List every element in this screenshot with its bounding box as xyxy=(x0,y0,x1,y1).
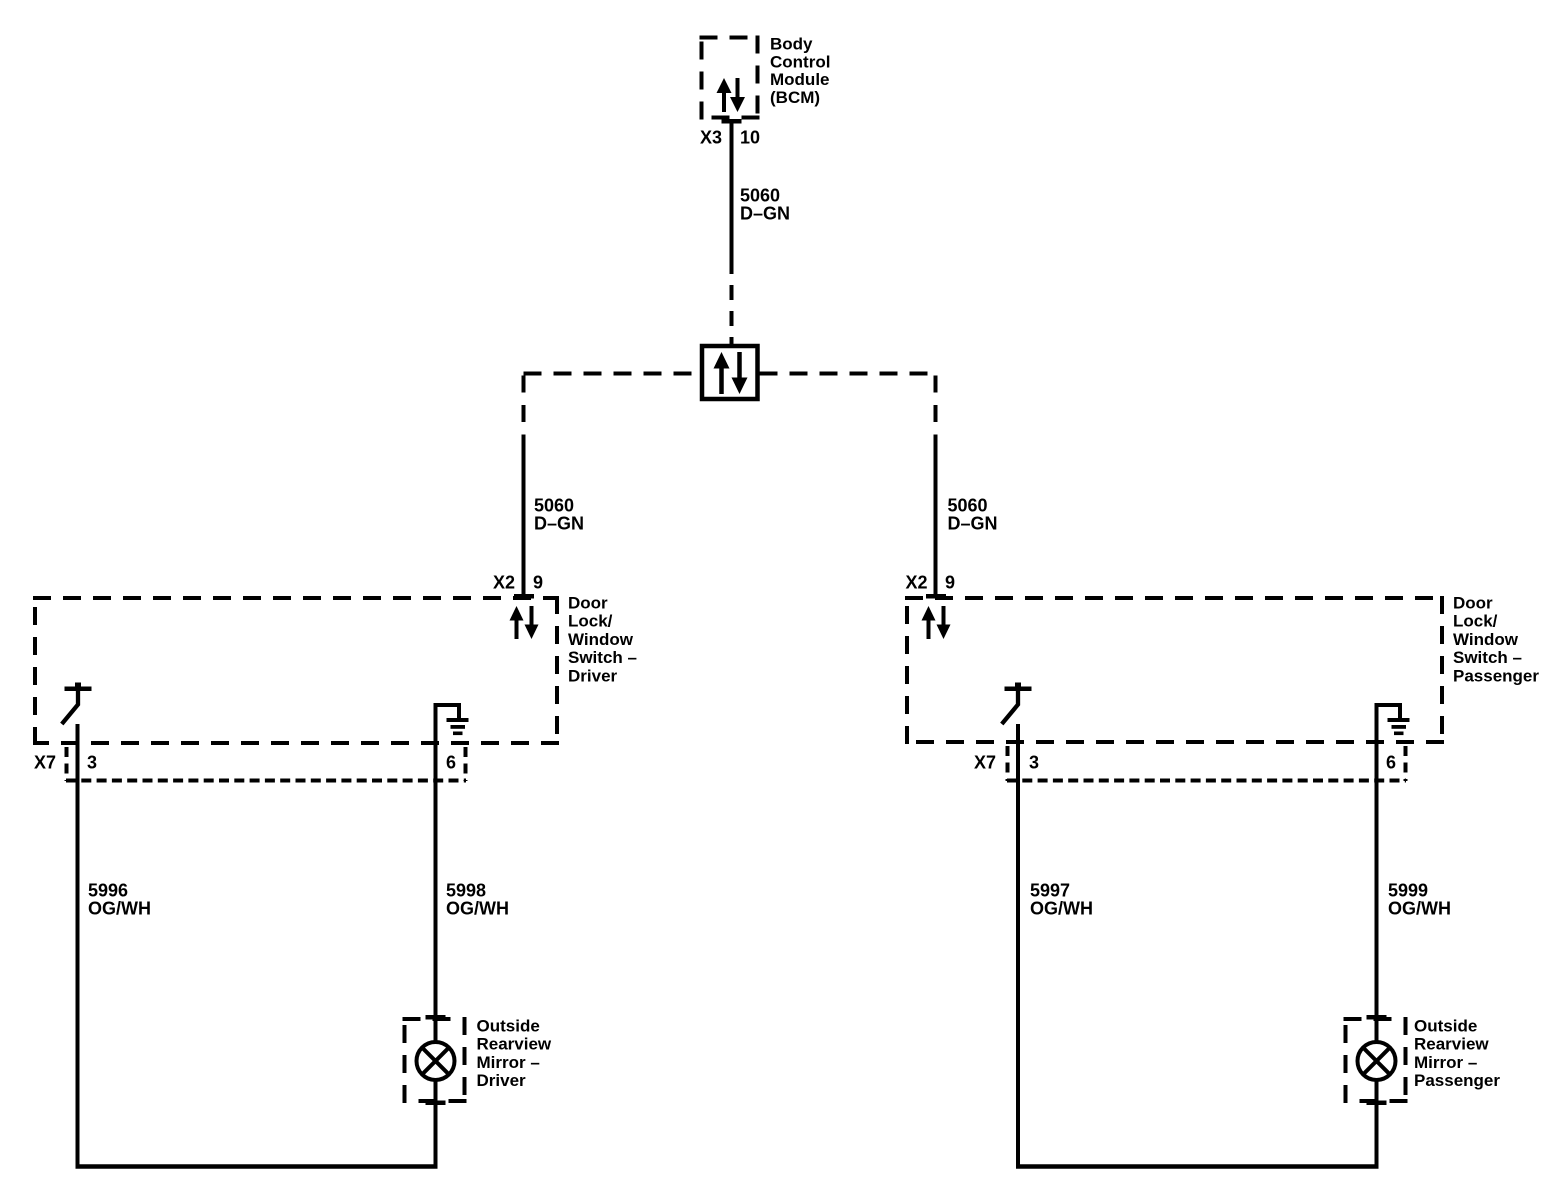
bottom rail wire (driver circuit) xyxy=(76,1164,438,1169)
driver switch label text xyxy=(568,594,637,686)
driver switch internal up/down arrows xyxy=(510,606,539,639)
svg-text:X2: X2 xyxy=(905,573,927,593)
svg-text:X7: X7 xyxy=(34,753,56,773)
passenger switch label text xyxy=(1453,594,1539,686)
connector label X2 (driver switch) xyxy=(493,573,515,593)
svg-text:X2: X2 xyxy=(493,573,515,593)
passenger mirror label text xyxy=(1414,1017,1500,1091)
lamp/motor symbol (passenger mirror) circle with X xyxy=(1358,1042,1396,1080)
pin tick at passenger switch X2 pin 9 xyxy=(926,594,946,599)
wire 5060 D-GN solid right branch xyxy=(934,443,938,596)
wire 5999 from ground side down to mirror (passenger) xyxy=(1375,744,1379,1169)
module: Door Lock/Window Switch - Driver dashed box xyxy=(33,596,559,745)
pin ticks on driver mirror box xyxy=(426,1015,446,1105)
module: Outside Rearview Mirror - Passenger dashed box xyxy=(1344,1017,1408,1103)
connector label X7 (passenger) xyxy=(974,753,996,773)
connector X7 dotted boundary (passenger door) xyxy=(1007,746,1406,781)
wire label 5060 D-GN (right branch) xyxy=(948,496,998,534)
pin number 9 (passenger switch) xyxy=(945,573,955,593)
driver mirror label text xyxy=(477,1017,552,1091)
ground symbol inside driver switch xyxy=(434,703,469,745)
wire 5998 from ground side down to mirror xyxy=(434,745,438,1169)
dashed bus wire right horizontal xyxy=(760,372,938,376)
bottom rail wire (passenger circuit) xyxy=(1016,1164,1379,1169)
wire label 5998 OG/WH xyxy=(446,881,509,919)
wire 5060 D-GN solid left branch xyxy=(522,443,526,596)
pin number 9 (driver switch) xyxy=(533,573,543,593)
wire label 5999 OG/WH xyxy=(1388,881,1451,919)
pin number 3 (passenger) xyxy=(1029,753,1039,773)
pin number 6 (passenger) xyxy=(1386,753,1396,773)
pin tick at driver switch X2 pin 9 xyxy=(514,594,534,599)
svg-text:9: 9 xyxy=(945,573,955,593)
pin ticks on passenger mirror box xyxy=(1367,1015,1387,1105)
wire label 5060 D-GN (top) xyxy=(740,186,790,224)
module: Door Lock/Window Switch - Passenger dashed box xyxy=(905,596,1444,744)
lamp/motor symbol (driver mirror) circle with X xyxy=(417,1042,455,1080)
wire dashed segment down to splice xyxy=(730,274,734,344)
pin number 3 (driver) xyxy=(87,753,97,773)
connector label X7 (driver) xyxy=(34,753,56,773)
switch contact (passenger) xyxy=(1002,683,1032,725)
dashed bus wire left horizontal xyxy=(524,372,701,376)
BCM label text xyxy=(770,35,830,107)
svg-text:X7: X7 xyxy=(974,753,996,773)
switch contact (driver) xyxy=(62,683,92,725)
wire label 5060 D-GN (left branch) xyxy=(534,496,584,534)
module U1: Body Control Module (BCM) dashed box xyxy=(700,36,760,120)
connector label X2 (passenger switch) xyxy=(905,573,927,593)
ground symbol inside passenger switch xyxy=(1375,703,1410,744)
svg-text:10: 10 xyxy=(740,128,760,148)
svg-text:6: 6 xyxy=(1386,753,1396,773)
pin number 6 (driver) xyxy=(446,753,456,773)
wire from passenger switch pin 3 xyxy=(1016,724,1020,1169)
splice box internal up/down arrows xyxy=(714,352,748,394)
connector label X3 xyxy=(700,128,722,148)
wire from driver switch pin 3 xyxy=(76,724,80,1169)
pin tick at BCM connector X3 pin 10 xyxy=(722,119,742,124)
svg-text:X3: X3 xyxy=(700,128,722,148)
svg-text:9: 9 xyxy=(533,573,543,593)
BCM internal up/down arrows xyxy=(717,78,746,112)
svg-text:3: 3 xyxy=(1029,753,1039,773)
pin number 10 xyxy=(740,128,760,148)
wire label 5996 OG/WH xyxy=(88,881,151,919)
module: Outside Rearview Mirror - Driver dashed box xyxy=(403,1017,467,1103)
connector X7 dotted boundary (driver door) xyxy=(66,747,466,781)
dashed bus wire right vertical drop xyxy=(934,376,938,444)
svg-text:6: 6 xyxy=(446,753,456,773)
splice box (in-line connector) solid border xyxy=(702,346,758,399)
wire label 5997 OG/WH xyxy=(1030,881,1093,919)
dashed bus wire left vertical drop xyxy=(522,376,526,444)
passenger switch internal up/down arrows xyxy=(922,606,951,639)
wire 5060 D-GN solid segment from BCM xyxy=(730,121,734,274)
svg-text:3: 3 xyxy=(87,753,97,773)
